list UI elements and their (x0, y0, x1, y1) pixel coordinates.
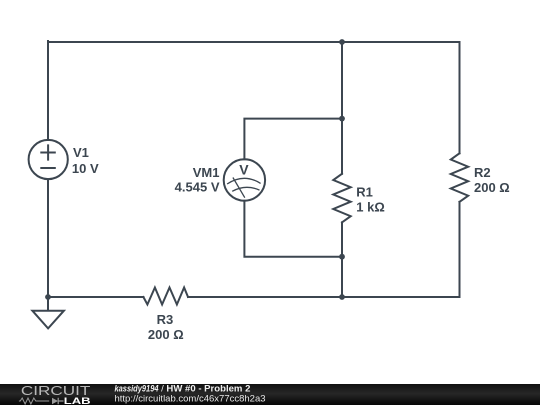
wire right lower (459, 202, 461, 297)
svg-text:http://circuitlab.com/c46x77cc: http://circuitlab.com/c46x77cc8h2a3 (115, 393, 266, 404)
wire R1 lower (341, 222, 343, 297)
svg-text:200 Ω: 200 Ω (148, 327, 184, 342)
wire voltmeter top (244, 119, 342, 160)
logo resistor (19, 398, 49, 404)
voltage source V1 (29, 140, 68, 179)
junction node ground (45, 294, 51, 300)
junction node vm top (339, 116, 345, 122)
wire voltmeter bottom (244, 201, 342, 257)
footer bar (0, 384, 540, 405)
voltmeter VM1 meter face (227, 178, 261, 198)
svg-text:R3: R3 (157, 312, 174, 327)
svg-text:10 V: 10 V (72, 161, 99, 176)
junction node top (339, 39, 345, 45)
wire R1 upper (341, 42, 343, 174)
voltmeter VM1 circle (224, 159, 265, 200)
svg-text:V1: V1 (73, 145, 89, 160)
svg-text:LAB: LAB (64, 396, 91, 405)
svg-text:1 kΩ: 1 kΩ (356, 200, 385, 215)
logo diode (52, 398, 58, 404)
ground (32, 297, 64, 328)
svg-text:V: V (239, 161, 249, 177)
svg-text:4.545 V: 4.545 V (175, 180, 220, 195)
resistor R2 (451, 153, 468, 202)
junction node bottom (339, 294, 345, 300)
wire bottom right (188, 296, 460, 298)
resistor R3 (143, 288, 188, 305)
wire left lower (47, 179, 49, 297)
wire right upper (459, 42, 461, 153)
svg-text:200 Ω: 200 Ω (474, 180, 510, 195)
wire bottom left (48, 296, 143, 298)
junction node vm bottom (339, 254, 345, 260)
wire top (48, 41, 460, 43)
wire left upper (47, 41, 49, 140)
svg-text:VM1: VM1 (193, 165, 220, 180)
svg-text:R2: R2 (474, 165, 491, 180)
svg-text:R1: R1 (356, 184, 373, 199)
resistor R1 (333, 174, 350, 223)
